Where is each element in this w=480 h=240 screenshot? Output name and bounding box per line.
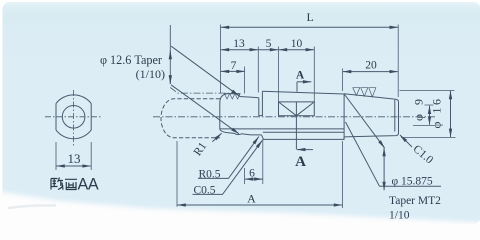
svg-text:10: 10 [291,38,303,50]
svg-text:R0.5: R0.5 [199,168,221,180]
svg-text:φ 12.6 Taper: φ 12.6 Taper [100,53,162,67]
svg-text:C0.5: C0.5 [194,185,216,197]
svg-text:1/10: 1/10 [389,210,410,222]
svg-text:L: L [307,10,314,24]
svg-text:φ 9: φ 9 [411,96,425,121]
svg-text:7: 7 [231,60,237,72]
svg-text:A: A [295,154,306,170]
svg-text:20: 20 [365,60,377,72]
svg-text:13: 13 [68,151,81,166]
svg-text:φ 15.875: φ 15.875 [392,176,433,188]
svg-text:Taper MT2: Taper MT2 [389,195,441,207]
svg-text:5: 5 [266,38,272,50]
svg-text:A: A [247,191,256,205]
svg-text:A: A [296,70,305,82]
svg-text:AA: AA [78,176,99,194]
svg-text:φ 16: φ 16 [430,97,444,129]
svg-text:(1/10): (1/10) [136,67,165,81]
svg-text:13: 13 [233,38,245,50]
svg-text:6: 6 [249,167,255,179]
